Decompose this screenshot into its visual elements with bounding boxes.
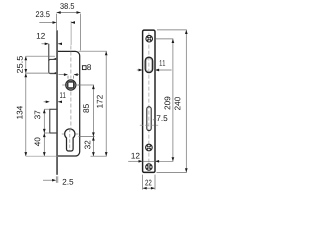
cylinder slot — [147, 107, 151, 131]
dim 32 text (rotated) — [85, 141, 91, 149]
label 7.5 with leader — [153, 119, 156, 121]
latch bolt top edge — [49, 59, 56, 61]
vertical centerline through spindle/cylinder — [70, 21, 72, 45]
label square 8 — [82, 66, 86, 70]
follower hub inner circle — [67, 81, 75, 89]
latch bolt bottom edge — [49, 72, 56, 74]
follower horizontal centerline dashes — [62, 84, 79, 86]
latch bolt front face — [48, 44, 50, 72]
dim 85 text (rotated) — [83, 104, 89, 112]
dim 22 (plate width bottom) — [143, 175, 155, 190]
dim 12 line (latch protrusion) — [42, 43, 63, 45]
dim 12 text (right view) — [131, 153, 139, 159]
dim 22 text — [145, 180, 151, 186]
latch top wedge — [52, 58, 56, 60]
dim square-8 arrows — [59, 75, 80, 79]
dim column 37 / 40 — [44, 109, 50, 156]
plate vertical centerline — [148, 33, 150, 171]
dim 37 text (rotated) — [34, 111, 40, 119]
dim 11 text (right view) — [160, 60, 166, 66]
dim 38.5 line — [57, 13, 81, 51]
dim column 85 / 32 — [78, 85, 95, 156]
dim 25.5 text (rotated) — [17, 56, 23, 73]
follower hub outer circle — [66, 80, 76, 90]
latch slot — [145, 57, 153, 72]
dim 11 line (escutcheon protrusion) — [44, 101, 62, 103]
dim column 240 — [157, 30, 187, 173]
top screw hole — [146, 35, 153, 42]
dim 11 text (left view) — [60, 92, 66, 98]
dim 2.5 (faceplate thickness) — [43, 176, 58, 183]
dim 2.5 text — [63, 179, 74, 185]
bottom screw hole — [146, 164, 152, 170]
dim 209 text (rotated) — [164, 97, 170, 110]
dim 23.5 line — [39, 22, 75, 24]
dim 23.5 text — [36, 11, 50, 17]
dim column 209 — [155, 39, 173, 161]
lock case outline — [58, 51, 80, 156]
euro cylinder profile — [65, 129, 75, 151]
faceplate (side view, vertical bar) — [56, 30, 58, 175]
faceplate front plate — [143, 30, 155, 172]
latch bottom wedge — [52, 72, 56, 74]
dim 12 (right view) — [128, 160, 173, 162]
spindle square hole 8mm — [68, 82, 74, 88]
dim 11 (right view, plate width at latch) — [137, 69, 172, 71]
dim 240 text (rotated) — [175, 97, 181, 110]
escutcheon block left of faceplate — [50, 109, 57, 133]
dim 172 text (rotated) — [97, 95, 103, 108]
label 7.5 text — [157, 115, 168, 121]
dim 134 text (rotated) — [17, 106, 23, 119]
dim 12 text — [37, 33, 45, 39]
dim 40 text (rotated) — [34, 137, 40, 146]
dim column 25.5 / 134 — [26, 56, 55, 156]
dim 38.5 text — [60, 3, 74, 9]
middle screw hole — [146, 144, 153, 151]
dim column 172 — [79, 51, 107, 156]
case bottom extension line to left — [26, 155, 58, 157]
cylinder horizontal centerline dashes — [62, 133, 79, 135]
label 8 of square-8 — [87, 64, 91, 70]
slot horizontal centerline — [140, 124, 158, 126]
